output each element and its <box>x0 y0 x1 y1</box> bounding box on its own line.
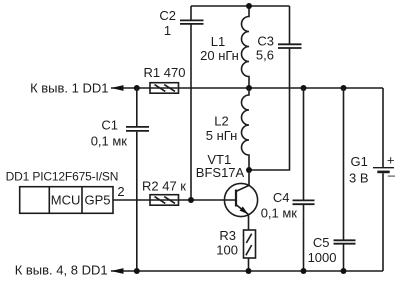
svg-text:C4: C4 <box>273 190 290 205</box>
resistor R1 <box>144 65 186 93</box>
arrow to pin 1 DD1 <box>111 85 124 91</box>
svg-text:3 В: 3 В <box>349 171 369 186</box>
svg-text:+: + <box>387 153 395 168</box>
svg-text:MCU: MCU <box>51 193 81 208</box>
svg-text:0,1 мк: 0,1 мк <box>91 133 128 148</box>
resistor R3 <box>216 228 255 271</box>
svg-text:К выв. 1 DD1: К выв. 1 DD1 <box>30 81 108 96</box>
svg-text:5,6: 5,6 <box>256 48 274 63</box>
wire middle rail <box>111 87 383 89</box>
capacitor C2 <box>159 6 203 200</box>
IC DD1 box <box>6 169 125 213</box>
arrow to pins 4,8 DD1 <box>111 268 124 274</box>
svg-text:5 нГн: 5 нГн <box>206 128 238 143</box>
node C4 / bottom rail <box>301 268 307 274</box>
svg-text:BFS17A: BFS17A <box>196 165 245 180</box>
node top rail / L1 junction <box>246 3 252 9</box>
capacitor C3 <box>249 6 302 170</box>
resistor R2 <box>142 179 186 206</box>
node C1 / bottom rail <box>134 268 140 274</box>
svg-text:C2: C2 <box>159 8 176 23</box>
svg-text:0,1 мк: 0,1 мк <box>261 206 298 221</box>
svg-text:L1: L1 <box>211 34 225 49</box>
node C2 / R2 / base <box>188 197 194 203</box>
svg-text:R3: R3 <box>219 228 236 243</box>
svg-text:G1: G1 <box>351 154 368 169</box>
svg-text:–: – <box>388 167 396 182</box>
svg-text:C1: C1 <box>101 117 118 132</box>
svg-text:1: 1 <box>164 23 171 38</box>
node C5 / bottom rail <box>341 268 347 274</box>
svg-text:100: 100 <box>216 243 238 258</box>
wire bottom rail <box>111 270 383 272</box>
svg-text:C3: C3 <box>257 34 274 49</box>
node C4 / rail <box>301 85 307 91</box>
wire top rail <box>191 5 290 7</box>
svg-text:20 нГн: 20 нГн <box>200 48 239 63</box>
inductor L1 <box>200 6 249 88</box>
inductor L2 <box>206 88 249 170</box>
svg-text:1000: 1000 <box>308 250 337 265</box>
node R3 / bottom rail <box>246 268 252 274</box>
capacitor C1 <box>91 88 149 271</box>
node collector junction <box>246 167 252 173</box>
svg-text:К выв. 4, 8 DD1: К выв. 4, 8 DD1 <box>15 263 108 278</box>
svg-text:2: 2 <box>117 184 124 199</box>
transistor VT1 <box>196 152 258 230</box>
svg-text:GP5: GP5 <box>84 193 110 208</box>
capacitor C4 <box>261 88 315 271</box>
node C5 / rail <box>341 85 347 91</box>
svg-text:L2: L2 <box>214 114 228 129</box>
svg-text:C5: C5 <box>313 235 330 250</box>
svg-text:DD1 PIC12F675-I/SN: DD1 PIC12F675-I/SN <box>6 169 119 183</box>
capacitor C5 <box>308 88 356 271</box>
battery G1 <box>349 88 396 271</box>
wire base line from DD1 <box>113 199 236 201</box>
svg-text:R2 47 к: R2 47 к <box>142 179 186 194</box>
svg-text:R1 470: R1 470 <box>144 65 186 80</box>
node L1 L2 rail junction <box>246 85 252 91</box>
node C1 / rail <box>134 85 140 91</box>
